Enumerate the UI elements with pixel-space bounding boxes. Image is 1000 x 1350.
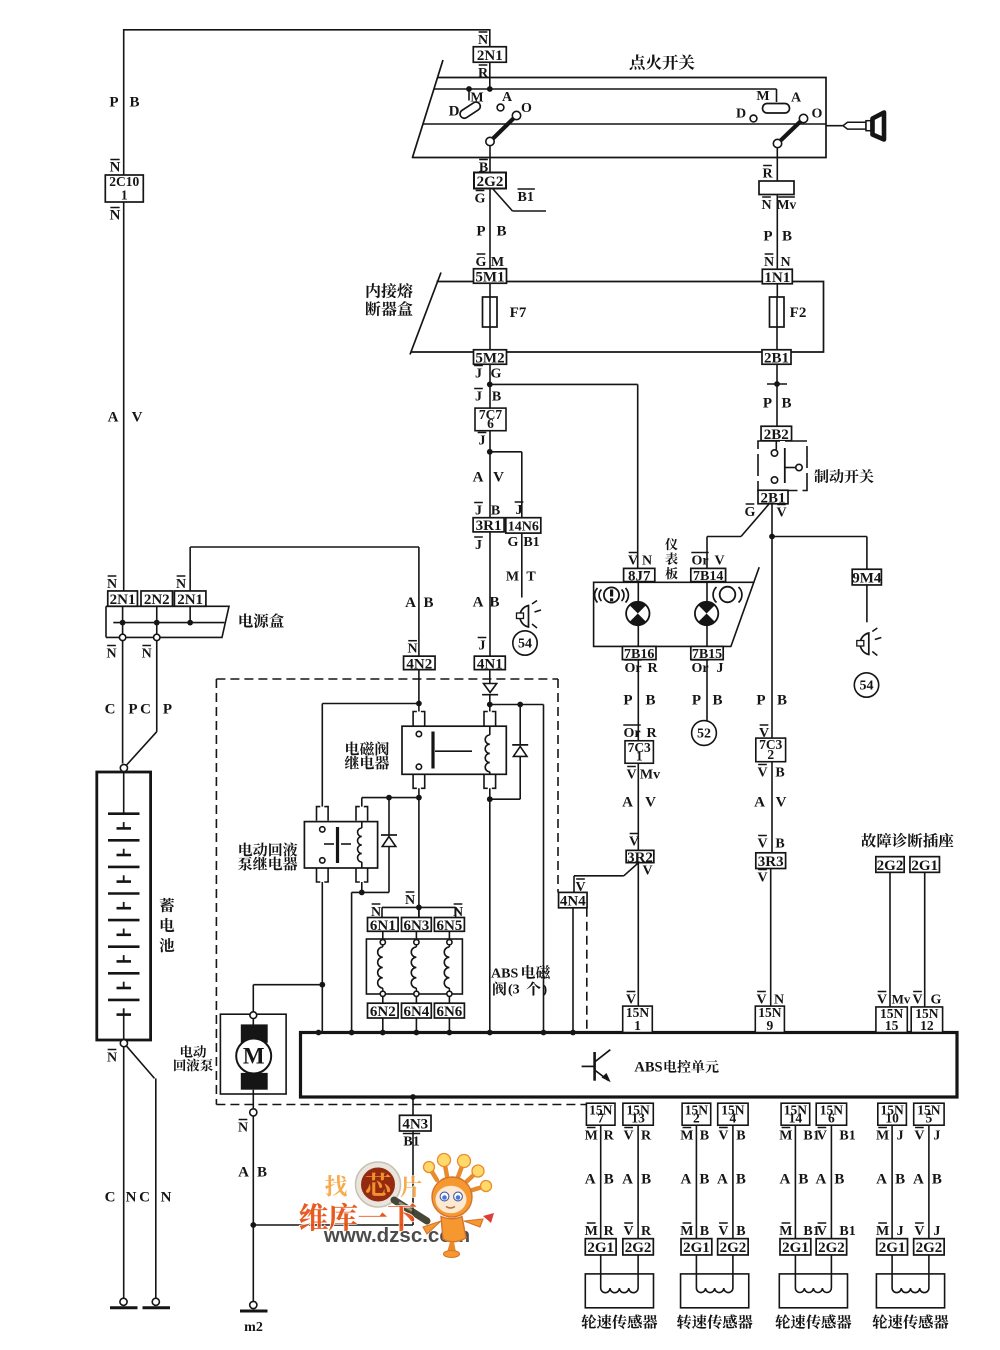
svg-text:A: A: [779, 1172, 790, 1188]
svg-text:J: J: [516, 503, 523, 518]
label P|B: [756, 693, 787, 709]
wire K1 coil out: [487, 788, 520, 1032]
label D left: [449, 104, 460, 120]
svg-text:(3: (3: [508, 983, 520, 998]
wheel sensor group 3 (轮速传感器): [775, 1102, 855, 1329]
label C|P C|P: [105, 702, 173, 718]
connector 2B1 lower: [758, 490, 788, 506]
svg-text:m2: m2: [244, 1320, 263, 1335]
label V bar | Mv above 15N15: [877, 992, 911, 1008]
svg-text:R: R: [641, 1129, 652, 1144]
label V bar below 3R3: [757, 870, 767, 886]
diode D2 (K1 freewheel): [512, 705, 528, 800]
svg-text:V: V: [624, 1129, 634, 1144]
svg-text:9M4: 9M4: [852, 571, 882, 587]
wire 2B1 to 2B2: [776, 364, 778, 427]
relay K2 terminals top: [317, 807, 368, 821]
svg-text:M: M: [876, 1224, 889, 1239]
wire left lever down: [489, 146, 491, 173]
svg-text:A: A: [754, 795, 765, 811]
svg-text:V: V: [914, 1224, 924, 1239]
svg-text:6N2: 6N2: [370, 1004, 396, 1020]
connector 15N pin 9: [755, 1005, 784, 1033]
svg-text:A: A: [405, 595, 416, 611]
left switch lever: [486, 111, 521, 145]
connector 6N2: [368, 1003, 399, 1020]
label N bar above 2N1a: [107, 576, 117, 592]
svg-text:D: D: [449, 104, 460, 120]
svg-text:P: P: [756, 693, 765, 709]
svg-text:B: B: [834, 1172, 844, 1188]
label A|B: [238, 1165, 267, 1181]
svg-text:B: B: [777, 693, 787, 709]
svg-text:2G1: 2G1: [911, 858, 938, 874]
wire power box to battery+ (2): [127, 641, 157, 765]
battery box: [97, 772, 151, 1040]
ABS solenoid label: [491, 965, 550, 997]
label B1 bar below 4N3: [403, 1134, 420, 1150]
fuse F2: [770, 297, 807, 327]
wire R box to 1N1: [776, 195, 778, 270]
svg-text:P: P: [692, 693, 701, 709]
label P|B: [476, 224, 506, 240]
label V bar | Mv: [626, 767, 660, 783]
svg-text:M: M: [470, 91, 483, 106]
label N bar (6N5): [453, 904, 463, 920]
label C|N C|N: [105, 1190, 172, 1206]
label V bar below 3R2: [642, 863, 652, 879]
wire K2 coil out: [352, 882, 389, 1033]
svg-text:1: 1: [634, 1018, 641, 1033]
wire 2N1b to 4N2: [190, 547, 419, 656]
svg-text:B: B: [496, 224, 506, 240]
svg-text:B: B: [257, 1165, 267, 1181]
connector 6N6: [434, 1003, 464, 1020]
svg-text:A: A: [680, 1172, 691, 1188]
junction dot: [416, 795, 422, 801]
svg-text:2N2: 2N2: [144, 592, 170, 608]
relay K2 contact: [320, 827, 351, 863]
label V bar: [629, 834, 639, 850]
svg-text:B: B: [700, 1129, 709, 1144]
svg-text:2G1: 2G1: [782, 1240, 809, 1256]
svg-text:N: N: [408, 642, 418, 657]
svg-text:J: J: [475, 367, 482, 382]
connector 7B14: [691, 568, 726, 584]
svg-text:52: 52: [697, 727, 711, 742]
svg-text:G: G: [508, 535, 519, 550]
brake switch label 制动开关: [814, 469, 873, 483]
brake icon: [713, 587, 742, 603]
wire 2G1 diag down: [924, 872, 926, 1007]
relay K1 coil: [485, 726, 490, 774]
connector 15N pin 12: [911, 1006, 942, 1033]
svg-text:J: J: [475, 390, 482, 405]
label A right: [791, 91, 802, 106]
ignition switch box: [412, 60, 826, 158]
svg-text:2G1: 2G1: [587, 1240, 614, 1256]
connector 2B2: [761, 426, 792, 443]
svg-text:R: R: [604, 1224, 615, 1239]
svg-text:6N4: 6N4: [403, 1004, 429, 1020]
label Or bar | V (7B14): [691, 553, 724, 569]
svg-text:A: A: [108, 410, 119, 426]
label M|T: [506, 570, 536, 585]
svg-text:A: A: [238, 1165, 249, 1181]
pump relay label 电动回液泵继电器: [238, 842, 297, 870]
power box: [106, 606, 229, 637]
svg-text:2N1: 2N1: [177, 592, 203, 608]
wire 7B16 down: [637, 660, 639, 1007]
wire 14N6 lamp: [521, 533, 523, 597]
svg-text:7B14: 7B14: [693, 569, 723, 584]
svg-text:G: G: [745, 505, 756, 520]
svg-text:R: R: [604, 1129, 615, 1144]
fuse F7: [483, 297, 527, 327]
svg-text:10: 10: [885, 1111, 899, 1126]
brake switch contacts: [771, 441, 802, 484]
lamp symbol (left): [517, 601, 542, 629]
svg-text:A: A: [876, 1172, 887, 1188]
ignition bus line upper: [434, 88, 777, 90]
svg-text:12: 12: [920, 1018, 934, 1033]
svg-text:A: A: [473, 470, 484, 486]
svg-text:R: R: [478, 66, 489, 81]
wire 2G2 to 5M1: [489, 189, 491, 270]
junction dot: [769, 534, 775, 540]
right contact M drop: [776, 89, 778, 102]
ignition bus line lower: [423, 123, 826, 125]
connector 6N1: [368, 918, 399, 934]
svg-text:B1: B1: [839, 1129, 855, 1144]
svg-text:): ): [543, 983, 548, 998]
svg-text:D: D: [736, 107, 746, 122]
connector 5M2: [474, 350, 507, 367]
svg-text:V: V: [757, 871, 767, 886]
fuse box label 内接熔断器盒: [366, 283, 413, 316]
label N bar below motor: [238, 1120, 248, 1136]
wire 4N4 to ECU: [572, 908, 574, 1033]
svg-text:B: B: [736, 1129, 745, 1144]
label Or bar | J: [691, 660, 723, 676]
svg-text:F7: F7: [510, 305, 527, 321]
svg-text:R: R: [762, 167, 773, 182]
ignition switch label 点火开关: [630, 54, 695, 70]
left contact O: [521, 101, 532, 116]
svg-text:B: B: [712, 693, 722, 709]
svg-text:N: N: [126, 1190, 137, 1206]
motor terminal top: [250, 1012, 257, 1019]
label Or bar | R: [623, 725, 657, 741]
wire coil top branch: [490, 702, 544, 708]
wire battery- to ground A: [123, 1047, 125, 1301]
wire 7B15 down: [706, 660, 708, 721]
connector 7B15: [691, 646, 723, 662]
svg-text:7: 7: [597, 1111, 604, 1126]
svg-text:V: V: [493, 470, 504, 486]
connector 8J7: [624, 568, 655, 584]
svg-text:A: A: [502, 90, 513, 105]
svg-text:M: M: [680, 1224, 693, 1239]
svg-text:B: B: [645, 693, 655, 709]
svg-text:C: C: [105, 1190, 116, 1206]
svg-text:J: J: [897, 1129, 904, 1144]
warning lamp right: [695, 602, 718, 625]
svg-text:Mv: Mv: [777, 197, 797, 212]
watermark logo (dzsc): [300, 1154, 494, 1258]
svg-text:5: 5: [926, 1111, 933, 1126]
wire 9M4 to lamp: [866, 585, 868, 622]
connector 2G2: [474, 173, 506, 190]
warning lamp left: [626, 602, 649, 625]
ground symbol B: [143, 1298, 171, 1308]
label N bar above 2N1 b: [176, 576, 186, 592]
svg-text:A: A: [791, 91, 802, 106]
svg-text:2G2: 2G2: [625, 1240, 652, 1256]
battery top terminal: [120, 764, 127, 771]
wire branch to 8J7: [490, 384, 638, 568]
ECU label: [634, 1060, 718, 1076]
svg-text:V: V: [718, 1224, 728, 1239]
connector 6N4: [402, 1003, 432, 1020]
svg-text:2G1: 2G1: [879, 1240, 906, 1256]
svg-text:15: 15: [885, 1018, 899, 1033]
wire 4N3 to m2: [253, 1131, 413, 1225]
svg-text:N: N: [110, 208, 121, 224]
wire motor ground col: [252, 1116, 254, 1302]
wire brake V down: [771, 504, 773, 853]
svg-text:N: N: [238, 1121, 248, 1136]
svg-text:P: P: [476, 224, 485, 240]
wire right lever down: [776, 148, 778, 182]
connector 6N3: [402, 918, 432, 934]
svg-text:M: M: [876, 1129, 889, 1144]
relay K1 contact: [416, 731, 472, 769]
wire 1N1 to F2: [776, 284, 778, 298]
svg-text:2: 2: [767, 747, 774, 762]
left contact A: [497, 90, 513, 111]
label P|B: [109, 95, 139, 111]
relay K1 terminals bottom: [413, 774, 496, 788]
label J bar | B: [474, 503, 500, 519]
svg-text:B: B: [699, 1172, 709, 1188]
connector 7C3 pin 1: [625, 740, 653, 764]
wire branch to 14N6: [490, 452, 522, 518]
svg-text:B: B: [895, 1172, 905, 1188]
ground m2: [240, 1301, 268, 1335]
label Or bar | R: [624, 660, 658, 676]
label V bar | G above 15N12: [912, 992, 941, 1008]
diode D1 (4N1 series): [482, 684, 498, 695]
svg-text:54: 54: [518, 637, 532, 652]
svg-text:4N3: 4N3: [402, 1117, 428, 1133]
wheel sensor group 2 (转速传感器): [677, 1102, 753, 1329]
lamp symbol (right): [857, 628, 882, 656]
svg-text:C: C: [140, 702, 151, 718]
right switch lever: [773, 114, 807, 147]
motor M1: [236, 1019, 271, 1090]
svg-text:N: N: [176, 577, 186, 592]
label J bar above 4N1: [478, 638, 487, 654]
left contact D capsule: [458, 100, 481, 119]
svg-text:M: M: [491, 255, 504, 270]
svg-text:B1: B1: [518, 190, 534, 205]
relay K2 coil: [358, 822, 362, 868]
label B1 bar: [518, 189, 535, 205]
ABS warning icon: [595, 587, 629, 602]
ECU transistor: [582, 1050, 611, 1083]
wire lamp left to 7B16: [637, 625, 639, 646]
connector 3R3: [756, 853, 786, 870]
svg-text:N: N: [107, 577, 117, 592]
svg-text:N: N: [106, 647, 116, 662]
label J bar (14N6): [515, 502, 524, 518]
svg-text:T: T: [526, 570, 536, 585]
svg-text:ABS: ABS: [634, 1060, 662, 1076]
label N bar (6N1): [371, 904, 381, 920]
svg-text:A: A: [473, 595, 484, 611]
svg-text:O: O: [812, 107, 823, 122]
label N bar | Mv bar: [761, 197, 796, 213]
brake switch box: [758, 441, 807, 491]
svg-text:Or: Or: [691, 661, 708, 676]
label J bar | G: [474, 366, 501, 382]
connector 2N1 b: [174, 591, 206, 608]
connector 4N4: [559, 892, 588, 909]
svg-text:2N1: 2N1: [477, 48, 503, 64]
relay K2 terminals bottom: [317, 868, 368, 882]
label V bar | B: [757, 836, 784, 852]
svg-text:B: B: [736, 1172, 746, 1188]
terminal circle 54 (left): [513, 631, 537, 655]
svg-text:B: B: [775, 766, 784, 781]
svg-text:4N4: 4N4: [560, 894, 586, 910]
svg-text:N: N: [142, 647, 152, 662]
junction dot pump: [319, 982, 325, 988]
motor enclosure: [220, 1014, 286, 1094]
motor terminal bottom: [250, 1109, 257, 1116]
svg-text:Or: Or: [691, 554, 708, 569]
power box label 电源盒: [239, 613, 283, 628]
svg-text:N: N: [107, 1051, 117, 1066]
svg-text:2G2: 2G2: [916, 1240, 943, 1256]
label A|V: [108, 410, 143, 426]
svg-text:M: M: [680, 1129, 693, 1144]
svg-text:8J7: 8J7: [628, 568, 651, 584]
svg-text:N: N: [478, 33, 488, 48]
wire lamp right to 7B15: [706, 625, 708, 646]
right contact M capsule: [763, 104, 790, 114]
junction dot 14N6 branch: [487, 449, 493, 455]
wire 4N2 to relay contact: [418, 669, 420, 711]
svg-text:J: J: [717, 661, 724, 676]
wire solenoid feed bus: [382, 905, 456, 919]
diode D3 (K2 freewheel): [381, 798, 397, 893]
junction dot: [416, 701, 422, 707]
label P|B: [763, 229, 792, 245]
connector 2G2 (diag): [876, 857, 904, 874]
svg-text:V: V: [626, 768, 636, 783]
svg-text:V: V: [817, 1224, 827, 1239]
svg-text:1: 1: [121, 187, 128, 202]
connector 5M1: [474, 269, 507, 286]
connector 7B16: [622, 646, 656, 662]
wire F2 to 2B1: [776, 327, 778, 350]
wire to pump motor: [253, 985, 322, 1012]
label N bar below 2C10: [110, 208, 121, 224]
svg-text:14N6: 14N6: [508, 519, 539, 534]
wire 3R2 to 4N4: [574, 863, 639, 893]
wire pump relay coil feed: [362, 795, 419, 807]
junction tick: [767, 381, 787, 387]
ECU top edge dots: [316, 1030, 576, 1036]
label N bar (6N3): [405, 892, 415, 908]
terminal circle 52: [692, 721, 717, 746]
wire 2N1 drop: [489, 29, 491, 48]
label J bar below 3R1: [474, 537, 483, 553]
svg-text:5M1: 5M1: [475, 269, 504, 285]
svg-text:B: B: [423, 595, 433, 611]
svg-text:4: 4: [730, 1111, 737, 1126]
svg-text:14: 14: [789, 1111, 803, 1126]
wire 2C10 to power box: [123, 202, 125, 591]
svg-text:6N6: 6N6: [436, 1004, 462, 1020]
svg-text:M: M: [756, 89, 769, 104]
svg-text:N: N: [642, 554, 652, 569]
svg-text:O: O: [521, 101, 532, 116]
ABS unit dashed border: [216, 679, 586, 1105]
connector 4N2: [404, 656, 436, 672]
wires 6N to ECU: [383, 1018, 450, 1033]
svg-text:V: V: [642, 864, 652, 879]
svg-text:R: R: [647, 661, 658, 676]
connector 9M4: [852, 569, 882, 586]
instrument panel box: [594, 567, 760, 647]
svg-text:B: B: [492, 390, 501, 405]
connector 1N1: [762, 254, 792, 286]
connector 2N1 a: [108, 591, 138, 608]
svg-text:9: 9: [766, 1018, 773, 1033]
wire K2 contact out: [321, 882, 323, 1033]
pump motor label 电动回液泵: [174, 1045, 213, 1071]
label A|V: [473, 470, 505, 486]
connector 7C7 pin 6: [475, 407, 506, 431]
svg-text:P: P: [163, 702, 172, 718]
label G bar | M: [476, 254, 505, 270]
svg-text:M: M: [506, 570, 519, 585]
svg-text:ABS: ABS: [491, 967, 518, 982]
svg-text:A: A: [622, 1172, 633, 1188]
svg-text:G: G: [475, 192, 486, 207]
wheel sensor group 4 (轮速传感器): [872, 1102, 948, 1329]
svg-text:B: B: [782, 229, 792, 245]
svg-text:B: B: [641, 1172, 651, 1188]
label V bar above 7C3-2: [759, 725, 769, 741]
svg-text:G: G: [476, 255, 487, 270]
svg-text:B: B: [775, 837, 784, 852]
label R bar: [762, 166, 773, 182]
svg-text:54: 54: [860, 679, 874, 694]
svg-text:2G2: 2G2: [818, 1240, 845, 1256]
wire 2G2 diag down: [889, 872, 891, 1007]
svg-text:B: B: [798, 1172, 808, 1188]
svg-text:2N1: 2N1: [110, 592, 136, 608]
svg-text:C: C: [105, 702, 116, 718]
svg-text:P: P: [128, 702, 137, 718]
ignition key: [826, 113, 884, 140]
svg-text:V: V: [624, 1224, 634, 1239]
instrument panel label 仪表板: [665, 538, 678, 580]
